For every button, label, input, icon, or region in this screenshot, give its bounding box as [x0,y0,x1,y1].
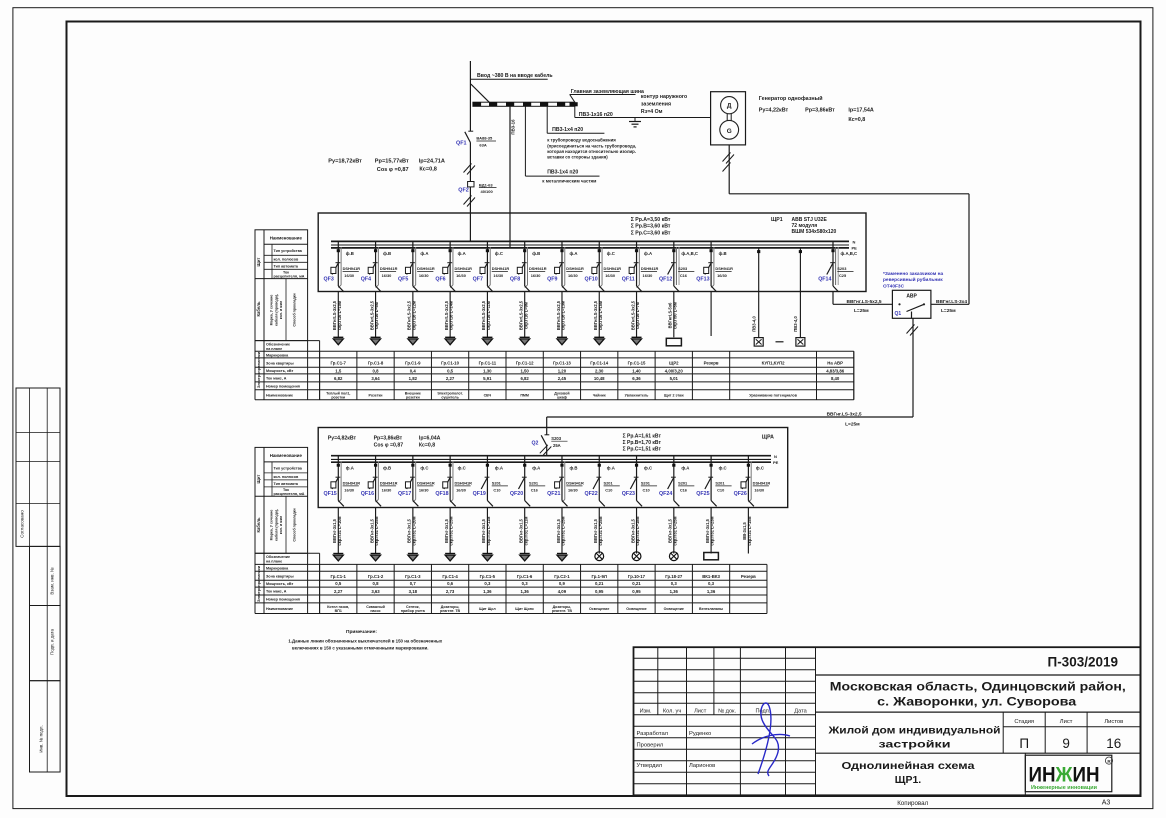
svg-text:ф.А: ф.А [532,466,540,471]
svg-text:4,00/3,20: 4,00/3,20 [665,369,684,374]
circuit breaker QF4 [375,241,377,286]
svg-text:QF7: QF7 [473,277,483,283]
svg-text:скр.П31 L=11м: скр.П31 L=11м [486,517,491,546]
svg-text:на плане: на плане [266,347,282,351]
svg-text:Дата: Дата [794,709,807,715]
svg-text:Резерв: Резерв [704,361,719,366]
load symbol (ЩРА) #1 [333,553,343,555]
svg-text:0,21: 0,21 [632,581,641,586]
distribution panel ЩР1 box [318,213,866,292]
svg-text:DSH941R: DSH941R [715,266,733,271]
svg-text:реверсивный рубильник: реверсивный рубильник [883,276,943,283]
svg-text:Σ Рр.В=3,60 кВт: Σ Рр.В=3,60 кВт [631,224,671,230]
svg-text:C16: C16 [680,273,688,278]
svg-text:застройки: застройки [879,738,951,750]
svg-text:ф.С: ф.С [719,466,727,471]
svg-text:скр.П16 L=15м: скр.П16 L=15м [598,301,603,330]
svg-text:ф.А: ф.А [607,466,615,471]
svg-text:Q2: Q2 [532,441,539,447]
svg-text:Инженерные инновации: Инженерные инновации [1031,785,1097,791]
earth wire to outside earthing loop and generator [574,106,576,117]
circuit breaker QF24 [673,456,675,501]
svg-text:16/30: 16/30 [344,488,354,493]
lamp load symbol (ЩРА) #8 [595,552,604,561]
circuit breaker QF6 [449,241,451,286]
svg-text:S201: S201 [715,481,725,486]
svg-text:Ру=4,82кВт: Ру=4,82кВт [328,435,357,441]
svg-text:72 модуля: 72 модуля [792,223,818,229]
svg-text:3,64: 3,64 [371,376,380,381]
svg-text:Освещение: Освещение [626,607,646,611]
svg-text:QF9: QF9 [547,277,557,283]
svg-text:скр.П31 L=15м: скр.П31 L=15м [747,516,752,545]
svg-text:1,82: 1,82 [409,376,418,381]
svg-text:Наименование: Наименование [270,453,303,458]
wire group feeder Гр.С1-9 [412,292,414,337]
svg-text:DSH941R: DSH941R [566,266,584,271]
svg-text:QF26: QF26 [734,491,747,497]
PE wire to panel, ПВ3-16 [509,106,511,248]
svg-text:16: 16 [1106,736,1121,751]
svg-text:S203: S203 [678,266,688,271]
circuit breaker QF17 [412,456,414,501]
svg-text:C10: C10 [717,488,724,493]
svg-text:2,45: 2,45 [558,376,567,381]
load symbol (ЩРА) #2 [371,553,381,555]
svg-text:ф.С: ф.С [458,466,466,471]
svg-text:Гр.С1-13: Гр.С1-13 [553,361,571,366]
svg-text:16/30: 16/30 [382,273,392,278]
svg-text:1,36: 1,36 [670,589,679,594]
svg-text:ф.А: ф.А [420,251,428,256]
svg-text:16/30: 16/30 [568,273,578,278]
svg-text:Щит 2 этаж: Щит 2 этаж [664,393,684,397]
panel ЩРА busbar L [331,455,771,457]
panel ЩР1 busbar PE [331,247,849,249]
svg-text:ф.В: ф.В [383,466,391,471]
svg-text:сушитель: сушитель [441,396,459,400]
svg-text:кабеля (провода),: кабеля (провода), [274,509,278,541]
svg-text:10,48: 10,48 [594,376,605,381]
svg-text:ЩР2: ЩР2 [669,361,679,366]
svg-text:Зона квартиры: Зона квартиры [266,574,294,578]
signature (blue) [752,703,790,776]
svg-text:DSH941R: DSH941R [529,266,547,271]
wire group feeder (ЩРА) #9 [636,508,638,554]
svg-text:Обозначение: Обозначение [266,555,290,559]
svg-text:Изм.: Изм. [640,709,652,715]
svg-text:которая находится относительно: которая находится относительно изолир. [547,149,636,154]
svg-text:Мощность, кВт: Мощность, кВт [266,369,293,373]
row header table ЩР1 [255,230,308,341]
svg-text:кол. полюсов: кол. полюсов [274,257,299,261]
svg-text:ф.В: ф.В [569,466,577,471]
svg-text:ф.В: ф.В [719,251,727,256]
tap wire to main earthing busbar [471,84,490,102]
panel ЩРА busbar PE [331,461,771,463]
svg-text:Гр.С2-1: Гр.С2-1 [554,574,570,579]
svg-text:N: N [853,240,856,245]
svg-text:Чайник: Чайник [593,393,606,397]
svg-text:ПММ: ПММ [520,393,529,397]
dash between bonding boxes [776,341,784,343]
svg-text:40/100: 40/100 [481,189,494,194]
svg-text:6,36: 6,36 [632,376,641,381]
svg-text:Руденко: Руденко [689,731,711,737]
svg-text:ф.С: ф.С [495,251,503,256]
svg-text:1,30: 1,30 [483,369,492,374]
svg-text:Iр=6,04А: Iр=6,04А [419,435,441,441]
svg-text:S201: S201 [678,481,688,486]
svg-text:DSH941R: DSH941R [417,266,435,271]
svg-text:1,36: 1,36 [707,589,716,594]
circuit breaker QF3 [337,241,339,286]
svg-text:16/30: 16/30 [456,488,466,493]
load symbol Гр.С1-12 [520,336,530,338]
svg-text:0,8: 0,8 [373,581,380,586]
circuit breaker QF15 [337,456,339,501]
main earthing busbar (ГЗШ) [473,102,575,106]
circuit breaker QF20 [524,456,526,501]
svg-text:ИНЖИН: ИНЖИН [1029,764,1100,787]
svg-text:ф.А,В,С: ф.А,В,С [681,251,698,256]
svg-text:ЩРА: ЩРА [762,435,774,441]
svg-text:Гр.С1-7: Гр.С1-7 [331,361,347,366]
panel ЩРА busbar N [331,458,771,460]
wire group feeder (ЩРА) #3 [412,508,414,554]
margin box Взам. инв. № [30,546,61,605]
svg-text:0,8: 0,8 [373,369,380,374]
svg-text:заземления: заземления [641,102,671,108]
svg-text:8,40: 8,40 [831,376,840,381]
svg-text:16/30: 16/30 [419,488,429,493]
svg-text:прибор учета: прибор учета [401,609,426,613]
wire QF2 to panel with core marks [469,187,471,242]
wire group feeder Гр.С1-13 [561,292,563,337]
svg-text:шкаф: шкаф [557,396,567,400]
svg-text:Марка, У сечение: Марка, У сечение [270,295,274,326]
ATS output wire down to panel ЩРА [907,325,915,334]
svg-text:контур наружного: контур наружного [641,94,687,100]
circuit breaker QF22 [598,456,600,501]
svg-text:ф.С: ф.С [420,466,428,471]
svg-text:Щит Щсл: Щит Щсл [479,607,496,611]
svg-text:QF18: QF18 [435,491,448,497]
lamp load symbol (ЩРА) #9 [632,552,641,561]
svg-text:Рр=15,77кВт: Рр=15,77кВт [375,158,409,164]
circuit breaker QF16 [375,456,377,501]
svg-text:П: П [1019,736,1029,751]
svg-text:DSH941R: DSH941R [380,481,398,486]
wire QF1-QF2 with core marks [469,143,471,182]
load symbol Гр.С1-15 [632,336,642,338]
svg-text:Ввод ~380 В на вводе кабель: Ввод ~380 В на вводе кабель [477,72,553,79]
svg-text:ОТ40F3C: ОТ40F3C [883,283,905,289]
svg-text:скр.П16 L=7м: скр.П16 L=7м [635,302,640,329]
svg-text:Лист: Лист [694,709,707,715]
earth electrode symbol [634,118,636,122]
svg-text:QF14: QF14 [818,277,831,283]
svg-text:ф.А: ф.А [495,466,503,471]
svg-text:ПВ3-4,0: ПВ3-4,0 [793,316,798,332]
circuit breaker QF13 [710,241,712,286]
svg-text:Тип автомата: Тип автомата [274,264,299,268]
svg-text:А3: А3 [1102,800,1111,807]
wire group feeder Гр.С1-8 [375,292,377,337]
wire group feeder (ЩРА) #8 [598,508,600,554]
svg-text:АВР: АВР [906,294,917,300]
margin box Подп. и дата [30,606,61,681]
svg-text:QF3: QF3 [324,277,334,283]
svg-text:QF5: QF5 [398,277,408,283]
svg-text:QF19: QF19 [473,491,486,497]
ATS box АВР with changeover switch Q1 [892,290,931,318]
svg-text:0,5: 0,5 [335,581,342,586]
svg-text:расцепителя, мА: расцепителя, мА [274,492,305,496]
svg-text:ABB STJ U32E: ABB STJ U32E [792,217,828,223]
svg-text:ф.А,В,С: ф.А,В,С [841,251,858,256]
svg-text:QF2: QF2 [458,188,468,194]
svg-text:16/30: 16/30 [531,273,541,278]
svg-text:1,20: 1,20 [558,369,567,374]
svg-text:Ларионов: Ларионов [689,763,715,769]
svg-text:Ру=4,22кВт: Ру=4,22кВт [759,107,789,113]
circuit breaker QF11 [636,241,638,286]
panel ЩР1 busbar N [331,244,849,246]
wire group feeder (ЩРА) #6 [524,508,526,554]
circuit breaker QF18 [449,456,451,501]
wire group feeder Гр.С1-7 [337,292,339,337]
svg-text:ф.В: ф.В [346,251,354,256]
svg-text:скр.П31 L=23м: скр.П31 L=23м [710,516,715,545]
svg-text:5,01: 5,01 [670,376,679,381]
svg-text:Щит: Щит [256,258,261,267]
svg-text:ВК1-ВК3: ВК1-ВК3 [702,574,720,579]
svg-text:Подп. и дата: Подп. и дата [50,629,55,655]
svg-text:ПВ3-16: ПВ3-16 [511,119,516,135]
svg-text:Iр=24,71А: Iр=24,71А [419,158,445,164]
svg-text:ВВГнг.LS-3х4: ВВГнг.LS-3х4 [936,299,967,305]
svg-text:4,83/3,86: 4,83/3,86 [826,369,845,374]
svg-text:Наименование: Наименование [270,236,303,241]
circuit breaker QF26 [747,456,749,501]
svg-text:DSH941R: DSH941R [380,266,398,271]
svg-text:ВВГнг.LS-3х2,5: ВВГнг.LS-3х2,5 [827,411,862,417]
circuit breaker QF14 [832,241,834,286]
svg-text:ВД1-63: ВД1-63 [479,182,493,187]
svg-text:скр.П31 L=10м: скр.П31 L=10м [337,516,342,545]
wire group feeder (ЩРА) #4 [449,508,451,554]
svg-text:DSH941R: DSH941R [417,481,435,486]
svg-text:4,09: 4,09 [558,589,567,594]
svg-text:Гр.С1-11: Гр.С1-11 [479,361,497,366]
svg-text:П-303/2019: П-303/2019 [1047,655,1118,670]
svg-text:Гр.С1-9: Гр.С1-9 [405,361,421,366]
svg-text:DSH941R: DSH941R [492,266,510,271]
load symbol Гр.С1-13 [557,336,567,338]
svg-text:16/30: 16/30 [456,273,466,278]
svg-text:QF15: QF15 [324,491,337,497]
svg-text:1,36: 1,36 [520,589,529,594]
svg-text:0,3: 0,3 [708,581,715,586]
svg-text:ПВ3-4,0: ПВ3-4,0 [752,316,757,332]
svg-text:Гр.С1-5: Гр.С1-5 [480,574,496,579]
svg-text:16/30: 16/30 [493,273,503,278]
svg-text:QF1: QF1 [456,140,466,146]
circuit breaker QF19 [486,456,488,501]
svg-text:Гр.18-27: Гр.18-27 [665,574,683,579]
circuit data table for ЩРА [255,552,320,554]
svg-text:кол. и жил: кол. и жил [279,515,283,534]
load symbol (ЩРА) #4 [445,553,455,555]
wire group feeder Гр.С1-12 [524,292,526,337]
circuit breaker QF7 [486,241,488,286]
svg-text:3,63: 3,63 [371,589,380,594]
svg-text:2,27: 2,27 [334,589,343,594]
svg-text:Зона квартиры: Зона квартиры [266,361,294,365]
svg-text:Увлажнитель: Увлажнитель [625,393,650,397]
wire group feeder (ЩРА) #10 [673,508,675,554]
svg-text:3,18: 3,18 [409,589,418,594]
svg-text:Σ Рр.С=1,51 кВт: Σ Рр.С=1,51 кВт [623,446,662,452]
svg-text:Гр.1-9Л: Гр.1-9Л [592,574,607,579]
svg-text:ф.А: ф.А [644,251,652,256]
lamp load symbol (ЩРА) #10 [669,552,678,561]
row header table ЩРА [255,447,308,553]
equipotential bonding box КУП2 [796,338,805,347]
svg-text:C10: C10 [605,488,612,493]
svg-text:Гр.С1-1: Гр.С1-1 [331,574,347,579]
svg-text:(присоединиться на часть трубо: (присоединиться на часть трубопровода, [547,143,636,148]
svg-text:Гр.С1-15: Гр.С1-15 [628,361,646,366]
svg-text:0,3: 0,3 [522,581,529,586]
load symbol Гр.С1-7 [333,336,343,338]
title block right part [816,674,1141,676]
svg-text:2,73: 2,73 [446,589,455,594]
svg-text:Проверил: Проверил [637,743,664,749]
svg-text:Согласовано: Согласовано [20,510,25,538]
svg-text:2,30: 2,30 [595,369,604,374]
svg-text:Наименование: Наименование [266,393,293,397]
svg-text:1.Данные линии обозначенных вы: 1.Данные линии обозначенных выключателей… [288,639,442,644]
svg-text:QF21: QF21 [547,491,560,497]
svg-text:QF20: QF20 [510,491,523,497]
svg-text:0,3: 0,3 [671,581,678,586]
svg-text:скр.П16 L=13м: скр.П16 L=13м [561,301,566,330]
svg-text:DSH941R: DSH941R [753,481,771,486]
svg-text:0,95: 0,95 [595,589,604,594]
svg-text:Лист: Лист [1060,719,1073,725]
svg-text:Электроприемники: Электроприемники [257,565,261,602]
svg-text:Σ Рр.А=1,61 кВт: Σ Рр.А=1,61 кВт [623,433,662,439]
circuit breaker QF5 [412,241,414,286]
svg-text:S201: S201 [529,481,539,486]
svg-text:расцепителя, мА: расцепителя, мА [274,275,305,279]
svg-text:0,7: 0,7 [410,581,417,586]
svg-text:КУП1,КУП2: КУП1,КУП2 [762,361,786,366]
svg-text:Маркировка: Маркировка [266,353,289,357]
svg-text:G: G [727,128,732,135]
svg-text:S203: S203 [837,266,847,271]
wire group feeder Гр.С1-15 [636,292,638,337]
svg-text:QF11: QF11 [622,277,635,283]
svg-text:C10: C10 [493,488,500,493]
svg-text:1,40: 1,40 [632,369,641,374]
svg-text:скр.П31 L=25м: скр.П31 L=25м [561,516,566,545]
wire group feeder (ЩРА) #11 [710,508,712,554]
svg-text:к металлическим частям: к металлическим частям [542,179,596,184]
svg-text:16/30: 16/30 [754,488,764,493]
svg-text:скр.П31 L=25м: скр.П31 L=25м [598,516,603,545]
svg-text:DSH941R: DSH941R [604,266,622,271]
svg-text:L=25м: L=25м [854,308,869,314]
svg-text:скр.П16 L=14м: скр.П16 L=14м [449,301,454,330]
svg-text:Кс=0,8: Кс=0,8 [419,167,437,173]
svg-text:Освещение: Освещение [589,607,609,611]
svg-text:скр.П31 L=25м: скр.П31 L=25м [449,516,454,545]
svg-text:Кс=0,8: Кс=0,8 [419,443,435,449]
svg-text:5,91: 5,91 [483,376,492,381]
svg-text:Разработал: Разработал [637,731,669,737]
svg-text:Рр=3,86кВт: Рр=3,86кВт [805,107,835,113]
svg-text:Ток макс, А: Ток макс, А [266,376,287,380]
svg-text:QF24: QF24 [659,491,672,497]
svg-text:16/30: 16/30 [344,273,354,278]
svg-text:скр.П16 L=9м: скр.П16 L=9м [523,302,528,329]
svg-text:Ток макс, А: Ток макс, А [266,590,287,594]
svg-text:Гр.С1-12: Гр.С1-12 [516,361,534,366]
svg-text:QF22: QF22 [584,491,597,497]
svg-text:насос: насос [370,609,380,613]
svg-text:ф.С: ф.С [756,466,764,471]
svg-text:ВВГнг.LS-5х2,5: ВВГнг.LS-5х2,5 [847,299,882,305]
svg-text:Σ Рр.В=1,70 кВт: Σ Рр.В=1,70 кВт [623,440,662,446]
svg-text:Гр.С1-10: Гр.С1-10 [441,361,459,366]
svg-text:Листов: Листов [1104,719,1123,725]
circuit breaker QF25 [710,456,712,501]
circuit breaker QF21 [561,456,563,501]
svg-text:ПВ3-1х16 п20: ПВ3-1х16 п20 [579,112,613,118]
svg-text:0,21: 0,21 [595,581,604,586]
panel ЩР1 busbar L [331,240,849,242]
svg-text:6,82: 6,82 [334,376,343,381]
svg-text:Способ прокладки: Способ прокладки [293,508,297,541]
svg-text:ф.А: ф.А [458,251,466,256]
svg-text:ф.С: ф.С [644,466,652,471]
svg-text:Гр.С1-4: Гр.С1-4 [442,574,458,579]
svg-text:Инв. № подл.: Инв. № подл. [39,725,44,752]
svg-text:скр.П16 L=10м: скр.П16 L=10м [337,301,342,330]
svg-text:кабеля (провода),: кабеля (провода), [274,294,278,326]
svg-text:0,6: 0,6 [447,581,454,586]
svg-text:Тип устройства: Тип устройства [274,467,303,471]
load symbol Гр.С1-11 [482,336,492,338]
svg-text:скр.П31 L=18м: скр.П31 L=18м [635,516,640,545]
generator G1 single phase [711,92,746,145]
generator output wire with core marks [728,145,730,194]
svg-text:C25: C25 [839,273,847,278]
svg-text:0,9: 0,9 [559,581,566,586]
svg-text:6,82: 6,82 [520,376,529,381]
load symbol Гр.С1-9 [408,336,418,338]
svg-text:Утвердил: Утвердил [637,763,663,769]
svg-text:ПВ3-1х4 п20: ПВ3-1х4 п20 [547,170,578,176]
svg-text:ф.А: ф.А [346,466,354,471]
svg-text:включениях в 150 с указанными: включениях в 150 с указанными отмеченным… [292,645,429,650]
svg-text:Стадия: Стадия [1014,719,1034,725]
equipotential bonding feeders ПВ3-4,0 [758,248,760,338]
svg-text:Тип автомата: Тип автомата [274,482,299,486]
